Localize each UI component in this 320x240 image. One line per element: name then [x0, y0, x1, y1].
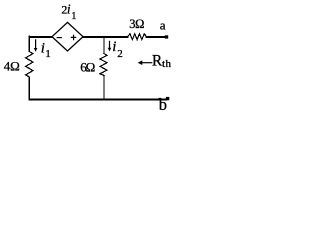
- svg-text:b: b: [159, 95, 167, 114]
- svg-text:4Ω: 4Ω: [4, 59, 20, 74]
- svg-text:1: 1: [45, 48, 51, 60]
- svg-text:2: 2: [117, 48, 123, 60]
- svg-text:th: th: [162, 58, 172, 70]
- svg-text:6Ω: 6Ω: [80, 59, 95, 74]
- svg-text:3Ω: 3Ω: [129, 17, 144, 31]
- svg-text:i: i: [67, 1, 71, 16]
- svg-text:1: 1: [71, 11, 76, 22]
- svg-text:a: a: [160, 18, 166, 33]
- svg-text:i: i: [112, 39, 116, 55]
